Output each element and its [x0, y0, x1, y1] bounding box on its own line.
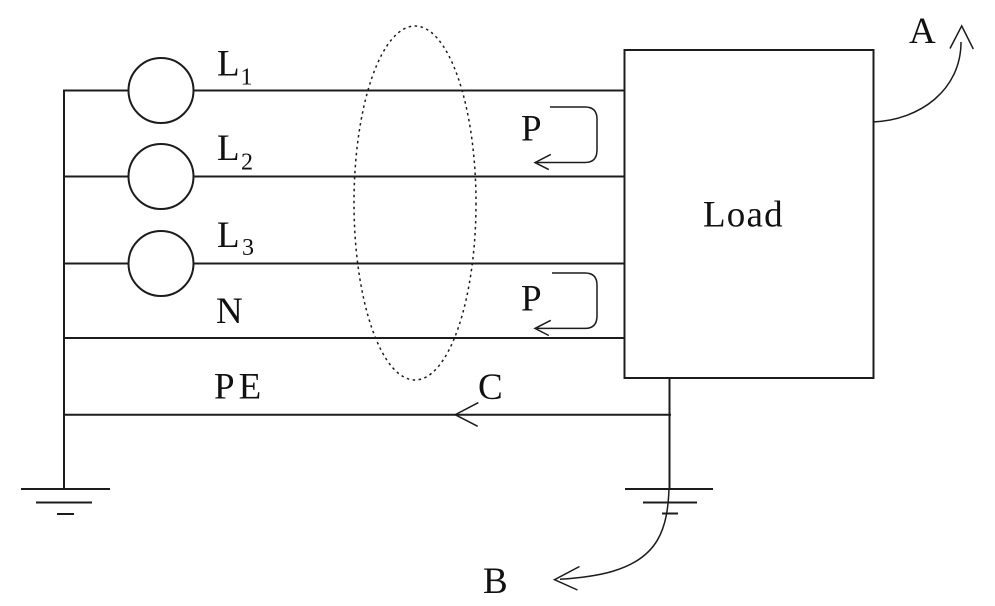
load box [625, 50, 874, 378]
arrow P1 loop [537, 107, 597, 163]
arrow P2 loop [537, 273, 597, 328]
arrow A curve [873, 42, 961, 122]
wire L3 [64, 263, 624, 265]
svg-text:P: P [521, 109, 542, 150]
svg-text:L: L [217, 128, 240, 169]
svg-text:A: A [909, 11, 936, 52]
ground right [626, 489, 712, 514]
svg-text:C: C [478, 367, 503, 408]
svg-text:L: L [217, 44, 240, 85]
svg-text:B: B [483, 561, 508, 602]
source L2 circle [129, 144, 194, 209]
svg-text:P: P [521, 279, 542, 320]
svg-text:PE: PE [214, 367, 265, 408]
wire L1 [64, 90, 624, 92]
wire load to earth vertical [669, 378, 671, 489]
measurement-zone ellipse [354, 26, 476, 380]
svg-text:Load: Load [703, 195, 784, 236]
svg-text:2: 2 [241, 150, 253, 176]
svg-text:3: 3 [242, 235, 254, 261]
wire left bus vertical [63, 91, 65, 490]
svg-text:N: N [216, 291, 243, 332]
source L3 circle [129, 231, 194, 296]
source L1 circle [129, 58, 194, 123]
arrow B curve [560, 489, 669, 579]
arrow C head [455, 403, 478, 427]
svg-text:1: 1 [241, 65, 253, 91]
svg-text:L: L [217, 215, 240, 256]
ground left [22, 489, 109, 514]
wire L2 [64, 176, 624, 178]
wire PE [64, 414, 670, 416]
wire N [64, 337, 624, 339]
